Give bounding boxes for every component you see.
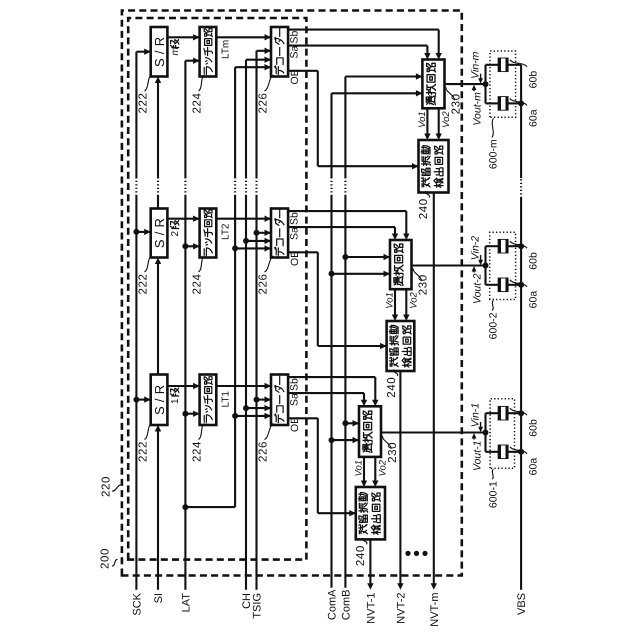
ellipsis dots (omitted NVT lines) [405,551,427,556]
svg-text:224: 224 [192,441,204,462]
svg-text:Vo2: Vo2 [378,459,389,476]
label LT1 [221,391,232,408]
wire S/R to latch stage 2 [167,216,199,222]
label Vo1 stage m [417,111,428,128]
wire unit 600-m elements to VBS [508,65,524,107]
pin label Sa stage 1 [289,393,301,406]
wire VBS bus [520,65,522,590]
svg-text:Sa: Sa [289,227,301,240]
label Vo2 stage 1 [378,459,389,476]
wire NVT-2 output [397,371,403,590]
label 60a unit 2 [510,280,540,309]
label Vo1 stage 1 [354,460,365,477]
svg-text:60a: 60a [528,458,540,476]
wire latch to decoder stage 1 [216,383,271,389]
wire S/R to latch stage m [167,34,199,40]
label SI [153,593,165,603]
svg-text:60b: 60b [528,252,540,270]
block decoder (dekoodaa) stage m (226) [271,27,288,77]
label NVT-m [429,593,441,627]
label 240 stage 1 [355,538,367,566]
block decoder (dekoodaa) stage 1 (226) [271,375,288,426]
outer dashed box: head unit 200 [122,11,462,576]
wire Vout-m/Vin-m selection output to unit 600-m [445,81,489,87]
svg-text:222: 222 [138,274,150,295]
label 60b unit 2 [510,241,540,270]
svg-text:LT1: LT1 [221,391,232,408]
wire S/R to latch stage 1 [167,383,199,389]
pin label Sb stage m [289,30,301,43]
wire latch to decoder stage m [216,34,271,40]
wire Vo2 selection to detection stage 2 [403,289,409,321]
svg-text:Sa: Sa [289,393,301,406]
svg-text:S/R: S/R [152,33,167,67]
pin label Sb stage 1 [289,378,301,391]
svg-text:Vout-m: Vout-m [471,92,483,126]
svg-text:Sb: Sb [289,378,301,391]
label 222 stage m [138,75,152,114]
piezo element 60a of unit 600-2 [498,278,508,292]
label 240 stage m [418,191,430,219]
wire unit 600-2 elements to VBS [508,243,524,288]
block S/R shift-register stage 1 (222) [151,375,168,426]
label 200 with leader [100,548,118,569]
svg-text:S/R: S/R [152,381,167,415]
wire SI / shift-register chain [155,77,161,590]
svg-text:m: m [170,47,181,55]
block decoder (dekoodaa) stage 2 (226) [271,209,288,258]
label 600-2 with leader [488,301,500,340]
block selection circuit (sentaku kairo) stage 2 (230) [390,240,412,289]
label 222 stage 1 [138,424,152,463]
wire Sb decoder-2 to selection [288,211,409,240]
label 230 stage m [446,87,463,114]
svg-text:220: 220 [101,476,113,497]
svg-text:226: 226 [258,441,270,462]
block S/R shift-register stage 2 (222) [151,209,168,258]
wire Vo1 selection to detection stage m [424,108,430,140]
label Vout-1 with arrow [471,433,483,471]
label Vout-2 with arrow [471,266,483,304]
label 600-m with leader [488,118,500,169]
svg-text:60a: 60a [528,291,540,309]
label ComA [327,589,339,620]
svg-text:OE: OE [289,417,301,432]
label 226 stage 2 [258,256,274,295]
svg-text:OE: OE [289,251,301,266]
svg-text:Vin-1: Vin-1 [469,403,481,427]
label VBS [516,593,528,615]
wire ComA bus [329,90,423,588]
svg-text:Vout-2: Vout-2 [471,273,483,304]
wire TSIG bus [254,48,272,590]
svg-text:1: 1 [170,398,181,404]
svg-text:224: 224 [192,274,204,295]
label 1&#27573; (stage 1) [170,388,181,404]
label Vout-m with arrow [471,85,483,126]
pin label OE stage 2 [289,251,301,266]
svg-text:ComB: ComB [340,590,352,621]
wire unit 600-m input bracket [486,65,499,104]
wire Vo2 selection to detection stage 1 [372,457,378,487]
label NVT-1 [365,593,377,624]
svg-text:Vout-1: Vout-1 [471,441,483,472]
label 220 with leader [101,476,122,497]
svg-text:60a: 60a [528,109,540,127]
label 600-1 with leader [488,469,500,508]
piezo element 60b of unit 600-1 [498,406,508,420]
label LTm [221,40,232,59]
wire Vout-2/Vin-2 selection output to unit 600-2 [412,263,489,269]
label 226 stage 1 [258,424,274,463]
svg-text:Vin-2: Vin-2 [469,236,481,260]
label 60a unit m [510,98,540,127]
svg-text:NVT-1: NVT-1 [365,593,377,624]
wire OE decoder-1 to detection [288,418,356,516]
block latch circuit (ratchi kairo) stage 1 (224) [200,375,217,426]
svg-text:LAT: LAT [180,593,192,613]
svg-text:LTm: LTm [221,40,232,59]
svg-text:Vin-m: Vin-m [469,51,481,78]
label CH [241,593,253,609]
svg-text:TSIG: TSIG [252,593,264,619]
wire SCK bus [133,49,150,590]
wire Vout-1/Vin-1 selection output to unit 600-1 [381,430,489,436]
label 60a unit 1 [510,447,540,476]
block residual-vibration detection circuit stage 1 (240) [356,487,385,539]
wire Sb decoder-1 to selection [288,377,378,406]
piezo unit 600-2 dotted enclosure [490,232,516,299]
wire Sa decoder-1 to selection [288,393,367,406]
label 224 stage 2 [192,256,205,295]
block selection circuit (sentaku kairo) stage 1 (230) [359,406,381,457]
pin label Sb stage 2 [289,212,301,225]
svg-text:SCK: SCK [131,592,143,615]
label Vin-2 with arrow [469,236,483,265]
label Vin-1 with arrow [469,403,483,432]
inner dashed box: drive-signal selection section 220 [128,18,306,560]
label Vin-m with arrow [469,51,483,83]
svg-text:240: 240 [355,545,367,566]
piezo unit 600-m dotted enclosure [490,51,516,117]
svg-text:Vo2: Vo2 [441,111,452,128]
wire Sb decoder-m to selection [288,30,442,60]
wire unit 600-1 elements to VBS [508,410,524,455]
block selection circuit (sentaku kairo) stage m (230) [422,60,444,109]
pin label OE stage m [289,69,301,84]
svg-text:SI: SI [153,593,165,603]
svg-text:Sb: Sb [289,212,301,225]
svg-text:224: 224 [192,93,204,114]
label Vo1 stage 2 [385,292,396,309]
block S/R shift-register stage m (222) [151,27,168,77]
svg-text:226: 226 [258,274,270,295]
label LT2 [221,223,232,240]
wire CH bus [243,57,271,590]
piezo element 60a of unit 600-m [498,97,508,111]
label 60b unit m [510,60,540,89]
label TSIG [252,593,264,619]
piezo element 60b of unit 600-m [498,58,508,72]
svg-text:Sa: Sa [289,45,301,58]
pin label Sa stage m [289,45,301,58]
label SCK [131,592,143,615]
label NVT-2 [395,593,407,624]
label Vo2 stage m [441,111,452,128]
pin label OE stage 1 [289,417,301,432]
wire unit 600-1 input bracket [486,413,499,452]
piezo element 60a of unit 600-1 [498,445,508,459]
label LAT [180,593,192,613]
label 222 stage 2 [138,256,152,295]
wire latch to decoder stage 2 [216,216,271,222]
piezo element 60b of unit 600-2 [498,239,508,253]
svg-text:S/R: S/R [152,214,167,248]
label Vo2 stage 2 [409,291,420,308]
wire Sa decoder-2 to selection [288,227,398,240]
label 60b unit 1 [510,408,540,437]
svg-text:NVT-m: NVT-m [429,593,441,627]
block residual-vibration detection circuit stage 2 (240) [387,321,415,371]
wire OE decoder-m to detection [288,71,418,170]
svg-text:OE: OE [289,69,301,84]
wire Vo2 selection to detection stage m [436,108,442,140]
svg-text:600-2: 600-2 [488,312,500,339]
pin label Sa stage 2 [289,227,301,240]
svg-text:600-m: 600-m [488,139,500,169]
svg-text:240: 240 [386,377,398,398]
label 230 stage 2 [413,268,430,295]
svg-text:60b: 60b [528,71,540,89]
svg-text:226: 226 [258,93,270,114]
label 240 stage 2 [386,370,398,398]
svg-text:240: 240 [418,198,430,219]
label 230 stage 1 [382,436,399,463]
piezo unit 600-1 dotted enclosure [490,399,514,468]
svg-text:600-1: 600-1 [488,481,500,508]
wire LAT bus [182,58,199,590]
svg-text:Vo1: Vo1 [385,292,396,309]
wire LAT branch to decoders [185,64,271,507]
svg-text:NVT-2: NVT-2 [395,593,407,624]
svg-text:222: 222 [138,441,150,462]
wire Sa decoder-m to selection [288,46,431,60]
label 226 stage m [258,75,274,114]
label m&#27573; (stage m) [170,40,181,56]
svg-text:LT2: LT2 [221,223,232,240]
block latch circuit (ratchi kairo) stage 2 (224) [200,209,217,258]
svg-text:Vo2: Vo2 [409,291,420,308]
svg-text:VBS: VBS [516,593,528,615]
wire NVT-m output [431,193,437,590]
wire NVT-1 output [367,539,373,589]
block latch circuit (ratchi kairo) stage m (224) [200,27,217,77]
label 224 stage m [192,75,205,114]
wire Vo1 selection to detection stage 1 [361,457,367,487]
wire Vo1 selection to detection stage 2 [392,289,398,321]
svg-text:200: 200 [100,548,112,569]
svg-text:222: 222 [138,93,150,114]
svg-text:2: 2 [170,231,181,237]
svg-text:Vo1: Vo1 [417,111,428,128]
svg-text:Vo1: Vo1 [354,460,365,477]
block residual-vibration detection circuit stage m (240) [419,140,449,193]
wire OE decoder-2 to detection [288,252,387,349]
svg-text:60b: 60b [528,419,540,437]
svg-text:ComA: ComA [327,589,339,620]
wire unit 600-2 input bracket [486,246,499,285]
wire ComB bus [342,73,422,587]
label ComB [340,590,352,621]
svg-text:Sb: Sb [289,30,301,43]
label 224 stage 1 [192,424,205,463]
label 2&#27573; (stage 2) [170,221,181,237]
